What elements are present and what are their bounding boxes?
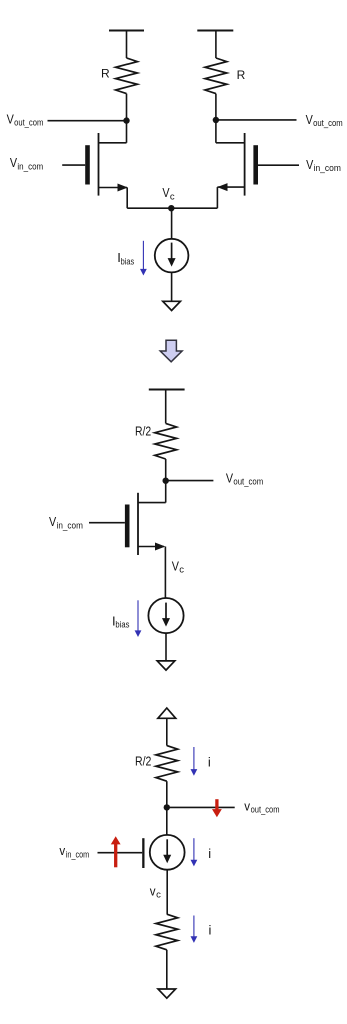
svg-text:V: V [306, 157, 313, 172]
svg-text:bias: bias [115, 620, 129, 631]
svg-text:in_com: in_com [17, 162, 43, 173]
svg-text:out_com: out_com [251, 805, 280, 816]
svg-text:R/2: R/2 [135, 423, 151, 438]
svg-text:in_com: in_com [66, 849, 89, 860]
svg-text:i: i [209, 923, 212, 938]
svg-text:V: V [306, 112, 313, 127]
svg-text:R/2: R/2 [135, 754, 151, 769]
svg-text:V: V [49, 514, 56, 529]
svg-text:v: v [59, 843, 65, 858]
svg-text:c: c [179, 565, 184, 576]
svg-text:i: i [208, 846, 211, 861]
svg-text:out_com: out_com [14, 118, 43, 129]
svg-text:in_com: in_com [57, 521, 83, 532]
svg-text:V: V [226, 470, 233, 485]
svg-text:V: V [7, 111, 14, 126]
svg-text:V: V [10, 155, 17, 170]
svg-text:v: v [244, 798, 250, 813]
svg-text:v: v [150, 883, 156, 898]
svg-text:out_com: out_com [233, 477, 263, 488]
svg-text:R: R [101, 66, 110, 80]
svg-text:R: R [237, 68, 246, 82]
svg-text:bias: bias [121, 256, 135, 267]
svg-text:i: i [208, 755, 211, 770]
svg-text:c: c [156, 890, 161, 901]
svg-text:in_com: in_com [314, 163, 341, 174]
svg-text:V: V [162, 185, 169, 200]
svg-text:V: V [172, 558, 179, 573]
svg-text:c: c [170, 192, 175, 203]
svg-text:out_com: out_com [313, 118, 343, 129]
